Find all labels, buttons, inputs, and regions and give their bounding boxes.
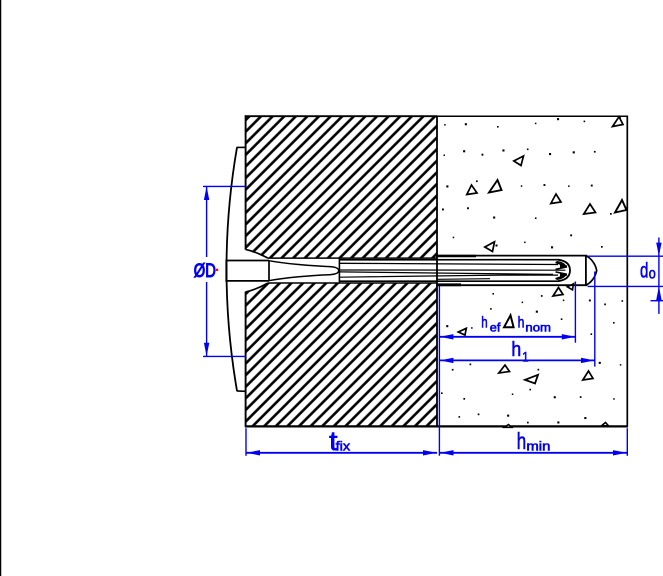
dimension OD line [206,186,208,257]
aggregate triangle overlapping label [504,315,514,327]
concrete block bottom edge [437,425,628,427]
anchor cone rounded tip [330,267,339,275]
dimension OD extension line top [203,185,245,187]
svg-text:h: h [481,315,487,332]
dimension h_min left arrow [440,450,454,455]
concrete block top edge [437,115,628,117]
aggregate triangle T4 [489,180,502,193]
drill hole top line [436,255,587,257]
dimension h_ef line [440,336,576,338]
aggregate triangle T9 [458,328,466,335]
drill hole mouth top thick segment [436,255,476,258]
drill hole mouth bottom thick segment [436,283,461,286]
aggregate triangle T6 [584,204,596,214]
aggregate triangle T14 [525,375,538,384]
dimension d0 arrow up [656,286,661,300]
svg-text:nom: nom [525,322,551,334]
fixture hole funnel bottom slope [246,283,268,292]
anchor head right edge [268,261,270,281]
aggregate triangle T10 [553,288,563,297]
dimension d0 line [658,238,660,314]
aggregate triangle T7 [615,200,627,213]
fixture block lower hatched area [246,283,438,427]
dimension h1 left arrow [440,358,454,363]
svg-text:h: h [517,428,526,454]
anchor head bottom edge [226,280,270,282]
anchor sleeve inner line 1 [339,263,558,264]
anchor screw shaft bottom line [340,272,553,275]
aggregate triangle T8 [485,242,495,252]
anchor cap end vertical [585,256,587,286]
expansion zone inner closure arc bottom [557,274,566,280]
dimension h_nom extension line [574,282,576,343]
svg-text:fix: fix [336,438,351,453]
expansion wedge top [556,262,568,266]
dimension h_min extension line right [626,428,628,456]
svg-text:ØD: ØD [194,261,216,282]
red dot after OD [216,269,218,271]
dimension d0 end tick [651,300,663,302]
fixture hole top edge [268,257,438,259]
svg-text:h: h [511,339,521,361]
fixture hole bottom edge [268,282,438,284]
anchor sleeve collar line [338,259,340,283]
fixture left face lower [245,292,247,427]
left page border line [0,0,2,576]
anchor countersunk cone top edge [269,261,330,267]
dimension OD arrow down [204,343,209,357]
fixture top edge [245,115,437,117]
aggregate triangle T16 on bottom edge [602,423,609,426]
dimension d0 extension line bottom [588,285,663,287]
anchor sleeve inner line 2 [339,275,558,277]
aggregate triangle T15 [583,371,593,380]
dimension h1 line [440,359,595,361]
fixture left face upper [245,115,247,249]
aggregate triangle T17 on bottom edge [505,425,512,428]
dimension t_fix right arrow [423,450,437,455]
dimension t_fix line [246,452,437,454]
concrete block right edge [626,116,628,427]
dimension OD arrow up [204,186,209,200]
concrete speckle dots [441,117,623,424]
dimension h_ef right arrow [562,334,576,339]
expansion zone outer closure arc [558,260,570,282]
dimension h_ef left arrow [440,334,454,339]
anchor sleeve rib line near mouth [437,278,490,281]
anchor countersunk cone bottom edge [269,275,330,281]
anchor head top edge [226,260,270,262]
svg-text:ef: ef [490,323,501,335]
svg-text:o: o [649,265,656,282]
fixture block upper hatched area [246,116,438,258]
dimension h1 right arrow [581,358,595,363]
svg-text:min: min [526,440,550,454]
svg-text:h: h [518,315,525,332]
fixture bottom edge [245,425,437,427]
aggregate triangle T11 [567,284,573,290]
fixture hole funnel top slope [246,249,268,258]
drill hole bottom line [436,284,587,286]
dimension OD extension line bottom [203,355,246,357]
aggregate triangle T5 [551,194,561,204]
dimension t_fix extension line left [245,428,247,456]
anchor sleeve top line [339,259,559,261]
dimension h1 extension line [594,272,596,367]
anchor plate top connector [237,146,246,148]
dimension d0 extension line top [588,255,663,257]
fixture / concrete interface line [436,115,438,426]
concrete face shared extension line [438,286,440,456]
aggregate triangle T2 [514,156,524,166]
expansion zone inner closure arc top [557,262,566,268]
anchor nose tip [586,256,597,285]
aggregate triangle T13 [499,365,510,373]
aggregate triangle T3 [467,185,477,195]
aggregate triangle T1 [613,117,624,127]
anchor large plate arc [227,147,238,390]
dimension d0 arrow down [656,243,661,257]
svg-text:1: 1 [522,349,529,365]
dimension t_fix left arrow [246,450,260,455]
dimension h_min right arrow [613,450,627,455]
dimension h_min line [439,452,627,454]
expansion wedge bottom [556,275,568,279]
svg-text:d: d [640,260,648,283]
anchor screw shaft top line [340,269,566,271]
anchor head left edge [225,260,227,282]
anchor plate bottom connector [237,390,246,392]
anchor sleeve bottom line [339,280,559,282]
